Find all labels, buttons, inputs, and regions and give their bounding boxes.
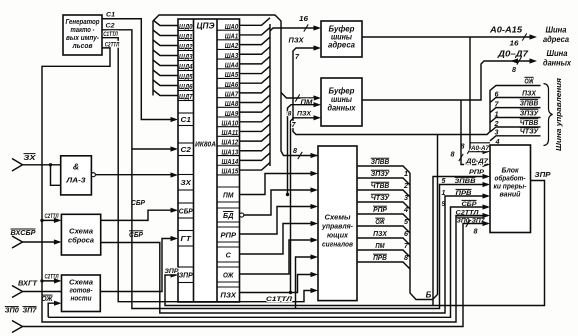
wire control bus ЗПЗУ [490, 118, 541, 123]
pin ША8 [217, 106, 240, 108]
brace for Шина управления [544, 84, 553, 146]
wire ША3 stub [240, 47, 271, 55]
wire РПР into interrupt block [433, 177, 488, 306]
wire ОЖ bottom rail [48, 207, 488, 317]
svg-text:ШД4: ШД4 [179, 62, 193, 71]
svg-text:Д0-Д7: Д0-Д7 [465, 158, 489, 165]
wire gate output to pin ЗХ [95, 174, 175, 176]
svg-text:ЗПР: ЗПР [165, 268, 180, 275]
bus ШД over-the-top run [153, 15, 318, 156]
wire ШД0 stub [153, 20, 178, 26]
svg-text:ющих: ющих [327, 231, 349, 240]
wire ША0 stub [240, 18, 271, 26]
pin ШД7 [178, 100, 194, 102]
wire ПЗХ from CPU to control block [240, 275, 316, 293]
svg-text:3: 3 [404, 193, 408, 202]
svg-text:ПЗХ: ПЗХ [220, 290, 237, 299]
svg-text:С2ТТЛ: С2ТТЛ [456, 209, 480, 216]
svg-text:ША1: ША1 [225, 32, 239, 41]
wire ПЗХ to address buffer and feeder to control fan [293, 48, 541, 135]
wire control output ПРВ [357, 262, 410, 269]
svg-text:ША9: ША9 [225, 109, 239, 118]
pin ШД2 [178, 50, 194, 52]
wire ПЗХ to data buffer [291, 118, 319, 293]
wire control output ЧТВВ [357, 190, 410, 197]
pin С [217, 246, 240, 248]
svg-text:1: 1 [404, 169, 408, 178]
wire ША11 stub [240, 124, 271, 132]
svg-text:ЗПР: ЗПР [179, 271, 194, 280]
wire rail riser to control block input 7 [296, 257, 316, 309]
pin С1 [178, 112, 194, 114]
svg-text:ЛА-3: ЛА-3 [65, 176, 86, 185]
wire control bus ЧТВВ [490, 127, 541, 132]
wire ША10 stub [240, 114, 271, 122]
svg-text:8: 8 [451, 150, 455, 159]
svg-text:СБР: СБР [462, 201, 478, 208]
svg-text:Схема: Схема [69, 227, 93, 236]
svg-text:ЗПР: ЗПР [535, 170, 552, 179]
pin ША5 [217, 77, 240, 79]
svg-text:ЗПВВ: ЗПВВ [455, 178, 476, 185]
wire ША15 stub [240, 163, 271, 171]
pin ША2 [217, 48, 240, 50]
svg-text:ЗХ: ЗХ [181, 178, 192, 187]
pin ША15 [217, 174, 240, 176]
svg-text:ЗХ: ЗХ [24, 153, 37, 162]
pin ША11 [217, 135, 240, 137]
bus ША ladder vertical [269, 24, 271, 166]
svg-text:ША5: ША5 [225, 70, 239, 79]
svg-text:8: 8 [288, 111, 292, 118]
wire СБР-inv long run to interrupt block [101, 196, 488, 313]
wire ВХСБР [23, 241, 60, 243]
svg-text:ПЗХ: ПЗХ [373, 229, 388, 238]
wire ШД3 stub [153, 50, 178, 56]
wire control output ПМ [357, 250, 410, 257]
svg-text:С1ТТЛ: С1ТТЛ [103, 31, 118, 38]
svg-text:СБР: СБР [179, 206, 194, 215]
wire ЗП0-ЗП7 bottom rail [23, 224, 489, 327]
address buffer block [321, 21, 362, 57]
bus ШД ladder vertical [152, 21, 154, 96]
pin ША0 [217, 29, 240, 31]
wire control bus ЗПВВ [490, 108, 541, 113]
wire ША1 stub [240, 27, 271, 35]
wire С2 branch to pin С2 [132, 148, 175, 150]
svg-text:Шина: Шина [547, 49, 569, 58]
svg-text:ПЗХ: ПЗХ [289, 37, 305, 44]
svg-text:ША15: ША15 [222, 167, 239, 176]
svg-text:ШД5: ШД5 [179, 72, 193, 81]
svg-text:ША4: ША4 [225, 61, 239, 70]
wire control output ПЗХ [357, 238, 410, 245]
svg-text:ШД1: ШД1 [179, 32, 193, 41]
data buffer block [321, 78, 362, 126]
svg-text:С1: С1 [181, 115, 191, 124]
pin ША7 [217, 97, 240, 99]
wire БД from CPU to control block [244, 190, 316, 215]
svg-text:4: 4 [403, 205, 408, 214]
svg-text:ША6: ША6 [225, 80, 239, 89]
wire ПМ to data buffer [288, 105, 319, 195]
svg-text:ШД0: ШД0 [179, 22, 193, 31]
pin ОЖ [217, 266, 240, 268]
svg-text:ЗП0-ЗП7: ЗП0-ЗП7 [457, 217, 485, 224]
svg-text:С2: С2 [106, 23, 115, 30]
svg-text:ША14: ША14 [222, 157, 239, 166]
wire ЗХ to gate [23, 164, 61, 166]
clock generator block [63, 15, 102, 55]
logic gate ЛА-3 [61, 156, 92, 195]
bus ША to address buffer [270, 28, 318, 31]
svg-text:ША8: ША8 [225, 99, 239, 108]
svg-text:Д0–Д7: Д0–Д7 [497, 49, 529, 58]
wire С1ТТЛ long run to control-signal circuit [102, 38, 316, 302]
wire control bus ЧТЗУ [490, 136, 541, 141]
interrupt handling block Блок обработки прерываний [490, 145, 531, 233]
bus Б collector vertical [410, 135, 438, 300]
svg-text:ВХГТ: ВХГТ [18, 279, 38, 288]
wire ША4 stub [240, 56, 271, 64]
svg-text:ПМ: ПМ [375, 241, 385, 250]
wire ШД1 stub [153, 30, 178, 36]
svg-text:С: С [226, 250, 232, 259]
svg-text:Шина: Шина [546, 26, 568, 35]
pin ША12 [217, 145, 240, 147]
pin РПР [217, 226, 240, 228]
wire control output ЗПЗУ [357, 178, 410, 185]
svg-text:БД: БД [223, 211, 234, 220]
svg-text:А0-А15: А0-А15 [489, 25, 523, 34]
junction: over-top bus to data buffer [281, 93, 318, 99]
svg-text:ПРВ: ПРВ [456, 190, 472, 197]
wire ША14 stub [240, 153, 271, 161]
pin ШД6 [178, 90, 194, 92]
svg-text:ЦПЭ: ЦПЭ [197, 21, 215, 31]
svg-text:&: & [73, 162, 79, 172]
svg-text:ИК80А: ИК80А [195, 140, 216, 149]
wire С2 [102, 30, 488, 309]
svg-text:управля-: управля- [321, 222, 353, 231]
svg-text:ШД3: ШД3 [179, 52, 193, 61]
control signals block Схемы управляющих сигналов [318, 146, 357, 301]
wire ЗПР return path [165, 181, 545, 306]
pin ША9 [217, 116, 240, 118]
wire ША6 stub [240, 76, 271, 84]
svg-text:1: 1 [442, 190, 446, 197]
wire А0-А15 address bus out [362, 36, 534, 38]
wire ОЖ into ready circuit from bottom rail [48, 303, 59, 317]
svg-text:РПР: РПР [220, 230, 237, 239]
wire ША8 stub [240, 95, 271, 103]
pin ША3 [217, 58, 240, 60]
svg-text:ЗП7: ЗП7 [23, 307, 38, 314]
wire С2ТТЛ distribution [42, 48, 488, 322]
CPU block U1 ЦПЭ outline [178, 19, 240, 302]
svg-text:сигналов: сигналов [322, 240, 353, 249]
svg-text:ША0: ША0 [225, 22, 239, 31]
svg-text:ОЖ: ОЖ [223, 270, 234, 279]
pin ПМ [217, 186, 240, 188]
wire ОЖ from CPU to control block [240, 240, 316, 274]
wire ШД5 stub [153, 70, 178, 76]
pin СБР [178, 202, 194, 204]
svg-text:ности: ности [71, 294, 92, 303]
wire ША13 stub [240, 143, 271, 151]
svg-text:9: 9 [442, 201, 446, 208]
wire segment above А0-А7 label [470, 142, 490, 144]
wire Д0-Д7 tap from data bus [461, 100, 488, 165]
pin ШД1 [178, 40, 194, 42]
svg-text:адреса: адреса [328, 41, 356, 50]
wire control output ОЖ [357, 226, 410, 233]
svg-text:8: 8 [512, 65, 516, 74]
pin ШД5 [178, 80, 194, 82]
svg-text:16: 16 [510, 38, 520, 47]
wire control output ЗПВВ [357, 166, 410, 173]
pin ША13 [217, 155, 240, 157]
svg-text:ЗП0: ЗП0 [5, 307, 19, 314]
wire РПР from CPU to control block [240, 207, 316, 235]
svg-text:льсов: льсов [72, 41, 93, 50]
svg-text:ША10: ША10 [222, 118, 239, 127]
wire ПМ from CPU to control block [240, 174, 316, 195]
wire ready output to pin ГТ [100, 239, 175, 292]
wire ША2 stub [240, 37, 271, 45]
pin ШД0 [178, 30, 194, 32]
svg-text:ОЖ: ОЖ [42, 296, 53, 303]
reset circuit block Схема сброса [61, 214, 100, 255]
svg-text:ША3: ША3 [225, 51, 239, 60]
svg-text:С1ТТЛ: С1ТТЛ [266, 296, 293, 303]
pin ША1 [217, 39, 240, 41]
pin ШД3 [178, 60, 194, 62]
svg-text:ША11: ША11 [222, 128, 239, 137]
svg-text:1: 1 [495, 109, 499, 118]
svg-text:Шина управления: Шина управления [554, 77, 563, 151]
pin ША14 [217, 164, 240, 166]
svg-text:2: 2 [403, 181, 408, 190]
svg-text:16: 16 [299, 14, 309, 23]
svg-text:адреса: адреса [543, 35, 570, 44]
wire ША7 stub [240, 85, 271, 93]
svg-text:А0-А7: А0-А7 [470, 145, 489, 152]
wire control output ЧТЗУ [357, 202, 410, 209]
svg-text:8: 8 [404, 253, 408, 262]
svg-text:2: 2 [494, 119, 499, 128]
wire ША12 stub [240, 134, 271, 142]
pin ША4 [217, 68, 240, 70]
svg-text:ШД2: ШД2 [179, 42, 193, 51]
svg-text:ШД6: ШД6 [179, 82, 193, 91]
svg-text:ШД7: ШД7 [179, 92, 193, 101]
svg-text:ША13: ША13 [222, 147, 239, 156]
svg-text:8: 8 [474, 226, 478, 235]
svg-text:ГТ: ГТ [181, 234, 193, 243]
wire С from CPU to control block [240, 224, 316, 255]
svg-text:ША7: ША7 [225, 89, 239, 98]
svg-text:Б: Б [426, 291, 432, 300]
pin ША6 [217, 87, 240, 89]
wire СБР to pin СБР [101, 210, 175, 220]
pin БД [217, 207, 240, 209]
pin С2 [178, 142, 194, 144]
svg-text:С1: С1 [106, 12, 115, 19]
svg-text:ваний: ваний [500, 190, 522, 199]
svg-text:Схемы: Схемы [325, 213, 352, 222]
pin ЗХ [178, 174, 194, 176]
wire С1 [102, 19, 175, 120]
inverter bubble on pin БД [240, 213, 244, 217]
wire ША5 stub [240, 66, 271, 74]
wire control output РПР [357, 214, 410, 221]
svg-text:ПЗХ: ПЗХ [297, 111, 311, 118]
svg-text:ША12: ША12 [222, 138, 239, 147]
pin ША10 [217, 126, 240, 128]
svg-text:ША2: ША2 [225, 41, 239, 50]
wire ША9 stub [240, 105, 271, 113]
svg-text:СБР: СБР [131, 198, 145, 207]
pin ШД4 [178, 70, 194, 72]
wire ШД2 stub [153, 40, 178, 46]
wire С2ТТЛ into ready circuit [40, 279, 43, 282]
wire ШД7 stub [153, 90, 178, 96]
pin ПЗХ [217, 286, 240, 288]
wire ВХГТ [23, 291, 62, 293]
wire data buffer output to data bus [362, 61, 534, 100]
wire А0-А7 tap from address bus [470, 37, 488, 152]
svg-text:данных: данных [328, 104, 357, 113]
svg-text:8: 8 [293, 146, 297, 155]
svg-text:5: 5 [442, 178, 446, 185]
svg-text:РПР: РПР [469, 169, 485, 176]
pin ГТ [178, 230, 194, 232]
svg-text:данных: данных [543, 59, 572, 68]
svg-text:ПМ: ПМ [223, 190, 234, 199]
ready circuit block Схема готовности [62, 275, 101, 312]
pin ЗПР [178, 266, 194, 268]
svg-text:С2: С2 [181, 145, 192, 154]
wire control bus ПЗХ [490, 98, 541, 103]
svg-text:ПЗХ: ПЗХ [522, 88, 537, 97]
wire С2ТТЛ into reset circuit [40, 219, 43, 222]
wire ШД6 stub [153, 80, 178, 86]
svg-text:3: 3 [495, 128, 499, 137]
wire ШД4 stub [153, 60, 178, 66]
svg-text:сброса: сброса [68, 236, 94, 245]
svg-text:СБР: СБР [129, 230, 143, 239]
